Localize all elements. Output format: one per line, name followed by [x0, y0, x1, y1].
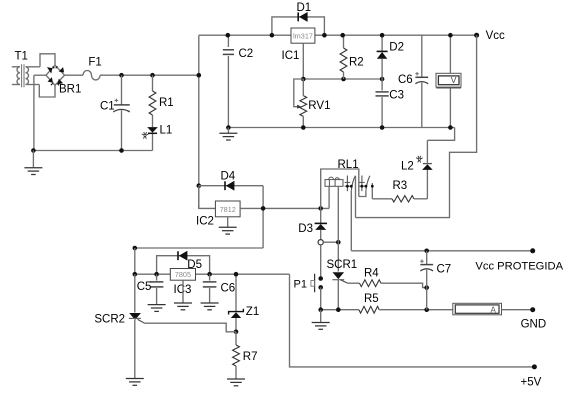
resistor R2	[340, 35, 364, 79]
junction D1 left	[270, 33, 275, 38]
diode D3	[298, 208, 327, 239]
LED L2	[401, 140, 433, 199]
svg-text:C6: C6	[398, 74, 413, 86]
svg-text:GND: GND	[521, 319, 547, 331]
wire 12V to IC3 (horizontal)	[135, 247, 263, 249]
diode D5 (bypass of IC3)	[157, 251, 210, 274]
junction voltmeter bottom	[448, 125, 453, 130]
junction C7 bottom	[424, 307, 429, 312]
junction D5 right / C6	[207, 272, 212, 277]
capacitor C6 (at IC3)	[203, 274, 235, 294]
svg-text:L1: L1	[160, 125, 173, 137]
junction 12V/feed-down	[261, 206, 266, 211]
relay contact 2	[359, 176, 370, 192]
capacitor C2	[223, 35, 253, 127]
wire top rail (input of IC1)	[199, 34, 291, 36]
wire IC1 adj pin	[302, 43, 304, 79]
svg-text:Z1: Z1	[246, 306, 259, 318]
regulator IC3 7805	[170, 269, 195, 297]
diode D4 (bypass of IC2)	[199, 170, 263, 190]
ground (C6 at IC3)	[201, 288, 219, 310]
ground (P1 column)	[312, 310, 330, 330]
wire regulator ground rail	[228, 127, 454, 129]
svg-text:lm317: lm317	[293, 31, 313, 40]
wire 12V to IC3 (vertical)	[134, 248, 136, 274]
wire +5V feed	[290, 274, 535, 367]
wire contact to Vcc (vertical)	[355, 176, 357, 218]
junction 12V/D3-relay	[318, 206, 323, 211]
svg-text:V: V	[451, 75, 457, 85]
junction feed/D4 branch	[197, 183, 202, 188]
svg-text:R4: R4	[364, 267, 379, 279]
voltmeter V	[436, 35, 461, 127]
wire L2 top to rail	[427, 128, 454, 141]
capacitor C5	[137, 274, 164, 293]
junction ground rail / C1	[119, 148, 124, 153]
svg-text:D3: D3	[298, 223, 313, 235]
wire Vcc to relay (path)	[356, 35, 477, 217]
zener diode Z1	[229, 274, 260, 332]
capacitor C7	[420, 251, 451, 310]
wire ammeter to GND terminal	[502, 309, 533, 311]
fuse F1	[83, 56, 102, 79]
svg-text:R5: R5	[364, 293, 379, 305]
svg-text:7812: 7812	[220, 205, 236, 214]
wire adj node	[303, 78, 382, 80]
relay contact 1	[345, 176, 356, 192]
svg-text:SCR1: SCR1	[327, 259, 358, 271]
wire relay bottom U	[359, 191, 366, 197]
svg-text:Vcc: Vcc	[486, 30, 505, 42]
resistor R3	[372, 180, 427, 202]
svg-text:7805: 7805	[175, 270, 191, 279]
terminal Vcc PROTEGIDA	[475, 248, 563, 272]
wire circle to SCR1 column	[323, 241, 338, 243]
junction C7 top	[424, 249, 429, 254]
relay contact 3 stub	[371, 183, 374, 199]
terminal Vcc	[474, 30, 505, 42]
junction ground rail / bridge	[31, 148, 36, 153]
ground (IC2)	[219, 217, 237, 234]
junction Z1 bottom / gate	[234, 330, 239, 335]
junction P1 column bottom	[318, 307, 323, 312]
svg-text:BR1: BR1	[59, 84, 81, 96]
resistor R5	[359, 293, 453, 313]
ground (C5)	[148, 288, 166, 311]
wire Vcc protegida rail	[351, 250, 532, 252]
terminal GND	[521, 307, 547, 330]
junction SCR1 cathode	[336, 307, 341, 312]
junction C2 bottom	[226, 125, 231, 130]
svg-text:IC1: IC1	[282, 50, 300, 62]
junction adj/D2-C3	[380, 77, 385, 82]
junction SCR1 anode top	[336, 240, 341, 245]
junction voltmeter top	[448, 33, 453, 38]
ground (IC3)	[174, 280, 192, 310]
junction adj/R2	[341, 77, 346, 82]
resistor R4 (gate)	[348, 267, 427, 287]
junction corner 12V feed	[133, 246, 138, 251]
junction 5V rail left	[133, 272, 138, 277]
wire bridge DC+ to F1	[65, 74, 84, 76]
diode D1 (bypass of IC1)	[272, 2, 325, 35]
junction adj/RV1	[301, 77, 306, 82]
capacitor C3	[376, 79, 405, 128]
wire bottom rail left	[321, 309, 359, 311]
SCR2	[94, 274, 144, 378]
ground (R7)	[227, 379, 245, 386]
relay RL1 coil	[325, 159, 359, 186]
junction D1 right	[322, 33, 327, 38]
diode D2	[377, 35, 404, 79]
wire top rail (output side)	[315, 34, 477, 36]
LED L1	[142, 125, 173, 151]
svg-text:T1: T1	[15, 51, 28, 63]
wire contact1 to Vcc protegida	[350, 191, 352, 251]
resistor R1	[149, 75, 174, 124]
junction C2 top	[226, 33, 231, 38]
junction Z1 top	[234, 272, 239, 277]
svg-text:A: A	[491, 305, 497, 314]
junction feed/+V rail	[197, 73, 202, 78]
svg-text:C7: C7	[437, 263, 452, 275]
wire relay top bar	[321, 169, 359, 208]
svg-text:R1: R1	[159, 97, 174, 109]
ground (SCR2)	[126, 379, 144, 386]
wire 12V rail	[240, 207, 329, 209]
junction R2 top	[340, 33, 345, 38]
junction R1 top	[150, 73, 155, 78]
svg-text:R7: R7	[243, 351, 258, 363]
svg-text:SCR2: SCR2	[94, 313, 125, 325]
svg-text:D1: D1	[297, 2, 312, 14]
regulator IC2 7812	[196, 201, 240, 227]
pushbutton P1	[294, 274, 324, 293]
wire IC2 input jog	[199, 186, 216, 209]
wire coil pin1 down	[328, 186, 330, 208]
svg-text:C5: C5	[137, 281, 152, 293]
terminal +5V	[521, 364, 542, 388]
svg-text:D4: D4	[221, 170, 236, 182]
SCR1	[327, 242, 358, 310]
wire unregulated feed (vertical)	[198, 35, 200, 208]
wire bridge DC- down	[33, 75, 35, 150]
transformer T1	[12, 51, 40, 88]
node connector (open circle)	[318, 240, 323, 245]
wire circle down to P1	[320, 245, 322, 279]
svg-text:P1: P1	[294, 279, 307, 291]
wire D4 right drop	[262, 186, 264, 248]
junction D2 top	[380, 33, 385, 38]
junction D5 left / C5	[154, 272, 159, 277]
wire ground rail top-left	[33, 150, 152, 152]
svg-text:Vcc PROTEGIDA: Vcc PROTEGIDA	[475, 260, 563, 272]
wire SCR2 gate	[145, 323, 237, 332]
svg-text:R3: R3	[393, 180, 408, 192]
ground (input stage)	[24, 151, 42, 175]
svg-text:R2: R2	[349, 56, 364, 68]
junction R4 / C7 column	[424, 285, 429, 290]
ground (under C2)	[219, 128, 237, 141]
svg-text:F1: F1	[88, 56, 101, 68]
svg-text:C6: C6	[221, 282, 236, 294]
junction C1 top	[119, 73, 124, 78]
bridge rectifier BR1	[34, 54, 81, 97]
capacitor C1	[100, 75, 130, 150]
svg-text:IC2: IC2	[196, 215, 214, 227]
wire 5V rail	[135, 273, 290, 275]
wire coil pin2 down	[337, 186, 339, 242]
svg-text:C2: C2	[239, 48, 254, 60]
capacitor C6 (filter)	[398, 35, 428, 127]
svg-text:RV1: RV1	[308, 100, 330, 112]
ammeter A	[453, 303, 502, 315]
potentiometer RV1	[294, 79, 331, 128]
svg-text:+5V: +5V	[521, 376, 542, 388]
regulator IC1 lm317	[282, 28, 315, 62]
wire +V rail top-left	[100, 74, 199, 76]
resistor R7	[233, 332, 258, 379]
svg-text:C1: C1	[100, 101, 115, 113]
junction RV1 bottom	[301, 125, 306, 130]
svg-text:C3: C3	[389, 90, 404, 102]
junction C3 bottom	[380, 125, 385, 130]
svg-text:L2: L2	[401, 160, 414, 172]
wire P1 to bottom rail	[320, 287, 322, 309]
svg-text:D2: D2	[389, 41, 404, 53]
